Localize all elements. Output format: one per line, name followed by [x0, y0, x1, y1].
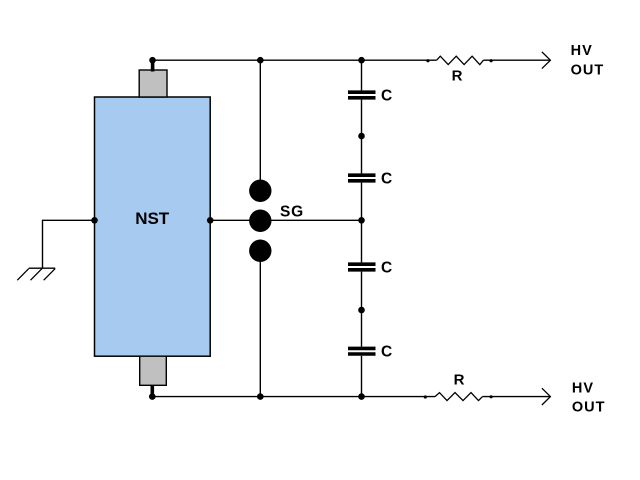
wire stub top terminal — [151, 60, 155, 71]
node bottom terminal junction — [149, 393, 156, 400]
wire stub bottom terminal — [151, 385, 155, 397]
node top resistor left — [426, 59, 429, 62]
node middle capacitor junction — [358, 217, 365, 224]
node top capacitor junction — [358, 57, 365, 64]
wire bottom from resistor to arrow — [483, 396, 551, 398]
svg-text:HV: HV — [572, 381, 594, 397]
arrow HV OUT top — [542, 52, 551, 69]
NST bottom terminal — [140, 356, 167, 385]
svg-text:OUT: OUT — [571, 63, 605, 79]
wire capacitor chain segment 4 — [361, 272, 363, 347]
transformer NST body — [95, 97, 211, 356]
svg-text:NST: NST — [135, 209, 170, 228]
node bottom capacitor junction — [358, 393, 365, 400]
node capacitor chain C3-C4 — [358, 307, 365, 314]
svg-text:C: C — [381, 171, 392, 188]
capacitor C3 — [348, 264, 376, 270]
svg-text:R: R — [452, 67, 463, 84]
NST top terminal — [139, 70, 167, 97]
wire capacitor chain segment 5 — [361, 356, 363, 397]
node bottom resistor right — [490, 395, 493, 398]
ground — [17, 268, 55, 280]
node NST left secondary — [91, 217, 98, 224]
node NST right secondary — [207, 217, 214, 224]
resistor R bottom — [435, 393, 483, 401]
svg-text:HV: HV — [571, 43, 593, 59]
node bottom resistor left — [424, 395, 427, 398]
svg-text:C: C — [381, 260, 392, 277]
capacitor C4 — [348, 348, 376, 354]
capacitor C2 — [348, 175, 376, 181]
wire spark-gap column upper — [259, 60, 261, 191]
wire spark-gap column lower — [259, 251, 261, 397]
wire capacitor chain segment 1 — [361, 60, 363, 90]
capacitor C1 — [348, 92, 376, 98]
svg-text:SG: SG — [280, 203, 304, 220]
wire capacitor chain segment 3 — [361, 183, 363, 263]
wire capacitor chain segment 2 — [361, 100, 363, 174]
resistor R top — [437, 56, 484, 64]
wire top from resistor to arrow — [483, 59, 550, 61]
svg-text:C: C — [381, 344, 392, 361]
svg-text:OUT: OUT — [572, 399, 606, 415]
node capacitor chain C1-C2 — [358, 133, 365, 140]
spark gap SG electrode top — [249, 180, 271, 202]
node top spark-gap junction — [257, 57, 264, 64]
node top resistor right — [490, 59, 493, 62]
wire ground lead — [43, 220, 95, 268]
svg-text:C: C — [381, 88, 392, 105]
wire middle from NST secondary to capacitor chain — [95, 219, 362, 221]
svg-text:R: R — [454, 371, 465, 388]
node bottom spark-gap junction — [257, 393, 264, 400]
spark gap SG electrode bottom — [249, 240, 271, 262]
wire bottom bus from NST bottom terminal to resistor — [152, 396, 435, 398]
node top terminal junction — [149, 57, 156, 64]
arrow HV OUT bottom — [542, 388, 551, 405]
wire top bus from NST top terminal to resistor — [153, 59, 437, 61]
spark gap SG electrode middle — [249, 210, 271, 232]
